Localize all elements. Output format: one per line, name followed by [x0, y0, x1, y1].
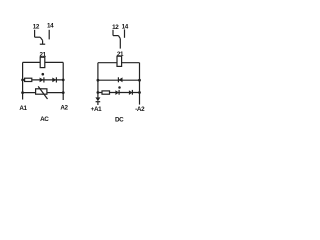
junction left bottom node: [97, 91, 100, 94]
wire: left vertical A1: [22, 62, 24, 99]
diode D6 (series, pointing down): [95, 97, 100, 101]
label 21: [40, 51, 47, 58]
label 12: [33, 24, 40, 31]
wire: contact 14 lead: [124, 29, 126, 37]
wire: contact 12 lead: [112, 30, 114, 36]
label 14: [122, 23, 129, 30]
svg-text:14: 14: [47, 22, 54, 29]
label 14: [47, 22, 54, 29]
wire: right vertical: [139, 63, 141, 105]
wire: contact arm: [35, 36, 41, 38]
relay coil K1: [40, 57, 45, 67]
junction A1 node: [21, 91, 24, 94]
wire: contact arm: [113, 35, 118, 37]
junction right bottom node: [138, 91, 141, 94]
wire: contact pole: [42, 40, 44, 44]
resistor R2: [102, 91, 110, 94]
relay coil K2: [117, 56, 122, 66]
label +A1: [91, 106, 103, 113]
svg-text:A1: A1: [19, 105, 27, 112]
diode D2: [52, 77, 56, 82]
wire: bottom rail: [98, 92, 140, 94]
wire: contact 12 lead: [34, 30, 36, 37]
terminal tick pole 11: [40, 43, 45, 45]
wire: A1 stub: [97, 102, 99, 105]
svg-text:12: 12: [33, 24, 40, 31]
junction A2 node: [62, 91, 65, 94]
label DC: [115, 117, 124, 124]
label AC: [40, 116, 49, 123]
svg-text:AC: AC: [40, 116, 49, 123]
label 21: [117, 51, 124, 58]
svg-text:A2: A2: [60, 104, 68, 111]
svg-text:DC: DC: [115, 117, 124, 124]
LED D4: [115, 90, 119, 95]
wire: bottom rail: [23, 92, 64, 94]
junction left middle node: [21, 79, 24, 82]
wire: contact 14 lead: [48, 30, 50, 40]
svg-text:+A1: +A1: [91, 106, 103, 113]
label A1: [19, 105, 27, 112]
wire: top rail left: [23, 61, 41, 63]
junction left middle node: [97, 79, 100, 82]
label 12: [112, 24, 119, 31]
wire: left vertical: [97, 63, 99, 98]
wire: top rail left: [98, 62, 117, 64]
LED indicator dot: [118, 86, 121, 89]
wire: contact pole: [119, 39, 121, 49]
wire: middle row: [23, 79, 64, 81]
svg-text:14: 14: [122, 23, 129, 30]
wire: top rail right: [45, 61, 64, 63]
label A2: [60, 104, 68, 111]
diode D3 (freewheel, pointing left): [118, 77, 122, 82]
wire: middle row: [98, 79, 140, 81]
label -A2: [135, 106, 145, 113]
varistor RU: [36, 89, 47, 94]
svg-text:-A2: -A2: [135, 106, 145, 113]
resistor R1: [25, 78, 32, 81]
junction right middle node: [62, 79, 65, 82]
wire: top rail right: [121, 62, 139, 64]
junction right middle node: [138, 79, 141, 82]
LED D1: [40, 73, 45, 83]
wire: right vertical A2: [62, 62, 64, 100]
diode D5: [129, 90, 133, 95]
